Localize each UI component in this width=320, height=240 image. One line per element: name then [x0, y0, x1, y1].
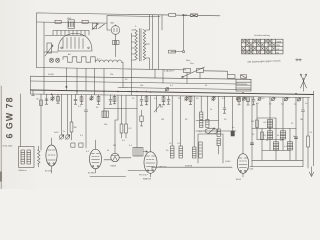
- riser x86: [85, 68, 87, 91]
- scan page edge: [0, 86, 2, 189]
- riser x163: [162, 70, 164, 84]
- output tube V6: [226, 154, 249, 181]
- bottom tie wire 2: [128, 167, 152, 170]
- choke L12: [280, 131, 285, 139]
- trimmer C5: [90, 95, 94, 101]
- misc small labels: [48, 53, 303, 147]
- riser x104: [103, 69, 105, 92]
- cap C6: [109, 95, 112, 104]
- resistor R3: [70, 95, 77, 141]
- tone tie 139: [257, 139, 283, 141]
- mid tie: [196, 120, 219, 122]
- coil La1: [169, 96, 174, 158]
- cap C7: [140, 95, 143, 105]
- resistor R7: [120, 95, 123, 138]
- ground ticks: [45, 103, 255, 113]
- resistor R10: [160, 96, 165, 109]
- pickup coupling: [302, 97, 305, 128]
- dial lamp L2: [56, 58, 60, 62]
- cap C3: [74, 95, 77, 104]
- riser x123: [122, 69, 124, 88]
- choke L13: [273, 142, 278, 150]
- resistor R21: [261, 132, 264, 140]
- power box bottom border: [37, 68, 187, 70]
- trimmer cap: [242, 97, 245, 100]
- mains terminal top: [169, 14, 198, 17]
- mains divider: [153, 15, 163, 70]
- rectifier filter box: [113, 41, 120, 45]
- cap C8: [167, 96, 170, 104]
- mixer tube V3: [88, 140, 102, 175]
- power box inner top wire: [107, 15, 160, 18]
- table cross marks: [242, 40, 275, 53]
- osc coil zigzag: [38, 146, 41, 167]
- junction dot: [65, 86, 67, 88]
- coil La2: [178, 96, 183, 158]
- socket lead row: [53, 31, 89, 36]
- resistor R2: [57, 94, 60, 103]
- trimmer C10: [212, 96, 216, 101]
- riser x155: [154, 69, 156, 78]
- riser x94: [94, 68, 96, 94]
- AF driver box: [133, 148, 148, 157]
- rectifier anode pins: [63, 37, 83, 49]
- power supply box outline: [37, 13, 221, 68]
- rectifier envelope V1 glass: [58, 34, 92, 52]
- demod tube V5: [143, 152, 167, 181]
- AVC series trimmer: [165, 88, 169, 91]
- choke L11: [267, 131, 272, 139]
- choke L10: [267, 120, 272, 128]
- grid resistor box: [140, 110, 143, 126]
- right edge rail: [313, 91, 315, 166]
- tone tie 150: [262, 150, 290, 152]
- diode D1: [59, 94, 63, 139]
- bottom tie wire 3: [90, 176, 126, 178]
- table legend column: [276, 41, 281, 54]
- trimmer cap: [297, 98, 300, 101]
- resistor R8: [125, 95, 133, 138]
- switch table: [242, 39, 284, 54]
- paper shading: [0, 0, 320, 189]
- triode V2: [45, 138, 57, 173]
- osc coil stack: [200, 96, 203, 127]
- heater return wire: [122, 62, 123, 68]
- resistor R1 drop: [37, 94, 43, 150]
- cap C60: [241, 75, 247, 78]
- resistor R4: [78, 95, 83, 108]
- capacitor C1 drop: [45, 94, 48, 104]
- heater dropper chain: [63, 57, 95, 62]
- magic eye V4: [104, 153, 131, 167]
- fuse F1: [55, 20, 61, 23]
- dial lamp L1: [49, 58, 53, 62]
- bus rail AVC: [118, 88, 251, 90]
- trimmer cap: [284, 98, 287, 101]
- tone labels: [264, 122, 295, 148]
- trimmer C9: [185, 96, 189, 101]
- cap C20: [294, 137, 297, 139]
- tuning gang oval: [205, 128, 218, 134]
- diode D2: [65, 95, 69, 140]
- riser x77: [76, 68, 78, 95]
- scan edge blob: [0, 172, 2, 181]
- inner wire: [45, 34, 86, 37]
- power transformer T1: [132, 15, 150, 69]
- resistor R12: [238, 97, 241, 105]
- wire fuse row: [37, 22, 108, 23]
- switch feed riser: [186, 78, 188, 83]
- riser to transformer: [131, 33, 133, 68]
- socket leads: [107, 16, 116, 57]
- mains switch S1: [182, 63, 205, 79]
- socket lead bus: [53, 30, 89, 32]
- mid tie lower: [196, 130, 236, 132]
- riser x66: [66, 68, 68, 91]
- trimmer cap: [258, 97, 261, 100]
- coil La3: [193, 96, 197, 158]
- resistor R11: [189, 96, 192, 104]
- IF coil pair: [217, 96, 220, 154]
- mains lead: [183, 15, 185, 50]
- riser from box x44: [43, 22, 45, 94]
- cap C21: [250, 143, 253, 167]
- rectifier tube V1 socket: [111, 22, 120, 35]
- filament wire: [44, 51, 58, 53]
- mains terminal bottom: [169, 50, 185, 53]
- bottom tie wire: [152, 166, 232, 168]
- trimmer cap: [271, 98, 274, 101]
- AF line riser: [136, 95, 138, 147]
- bus rail screen: [31, 81, 248, 84]
- ground arrow: [309, 167, 313, 177]
- aerial socket mark: [296, 59, 302, 61]
- IF can termination box: [236, 79, 251, 91]
- mid wire: [104, 108, 137, 110]
- cap C4: [84, 95, 87, 148]
- volume pot arrow: [154, 96, 161, 112]
- cap C13: [252, 97, 255, 105]
- padder stack: [206, 96, 209, 127]
- trimmer C2: [51, 94, 55, 101]
- tone verticals: [252, 99, 303, 167]
- output tube grid riser: [150, 96, 152, 153]
- coupling box Z1: [102, 91, 109, 117]
- coupling caps pair: [71, 143, 83, 147]
- fuse F2: [82, 20, 88, 23]
- component rail: [31, 94, 311, 98]
- antenna lead: [20, 94, 22, 147]
- bus rail B+: [31, 76, 252, 79]
- resistor R24: [307, 98, 310, 169]
- trimmer cap: [236, 97, 239, 100]
- dropper R60: [204, 71, 236, 79]
- gang arrow: [209, 128, 215, 134]
- tone tie 160: [252, 159, 303, 161]
- left rail end: [30, 76, 32, 94]
- misc labels right: [63, 59, 313, 153]
- resistor R5: [97, 95, 100, 104]
- resistor R9: [145, 96, 148, 105]
- output tube anode riser: [242, 97, 244, 154]
- VDR U2: [67, 18, 75, 28]
- heater winding scallops: [95, 60, 121, 62]
- resistor R13: [247, 97, 250, 105]
- block cap C12: [231, 97, 234, 137]
- cap C11: [223, 96, 226, 113]
- VDR arrow component: [45, 43, 53, 56]
- riser x131: [131, 69, 133, 95]
- resistor R20: [256, 120, 259, 128]
- choke L14: [287, 142, 292, 150]
- surge resistor with arrows: [92, 23, 105, 30]
- phono input arrows: [301, 74, 307, 91]
- drops from rail to tone net: [252, 97, 296, 106]
- tone tie 118: [257, 117, 276, 119]
- resistor R6: [113, 95, 116, 104]
- tone network rail top: [252, 128, 296, 130]
- antenna coil box: [19, 147, 35, 172]
- tone network rail bottom: [250, 166, 303, 168]
- chassis rail: [31, 90, 314, 95]
- eye lead riser: [115, 95, 118, 153]
- IF transformer frame: [198, 134, 223, 163]
- ground mark left: [32, 90, 35, 96]
